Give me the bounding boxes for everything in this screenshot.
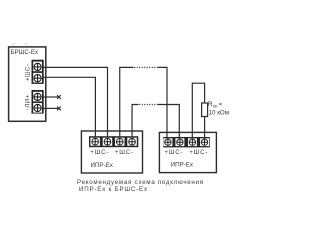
svg-text:+ШС-: +ШС-: [90, 149, 109, 156]
svg-text:+ШС-: +ШС-: [189, 149, 208, 156]
svg-text:+ШС-: +ШС-: [115, 149, 134, 156]
svg-text:БРШС-Ех: БРШС-Ех: [11, 49, 40, 56]
svg-text:10 кОм: 10 кОм: [209, 109, 229, 116]
svg-text:-ЛИ+: -ЛИ+: [25, 94, 31, 110]
svg-text:ИПР-Ех к БРШС-Ех: ИПР-Ех к БРШС-Ех: [79, 186, 148, 193]
svg-text:+ШС-: +ШС-: [164, 149, 183, 156]
svg-text:ИПР-Ех: ИПР-Ех: [91, 162, 114, 169]
svg-text:+ШС-: +ШС-: [25, 64, 31, 81]
svg-text:ИПР-Ех: ИПР-Ех: [171, 162, 194, 169]
